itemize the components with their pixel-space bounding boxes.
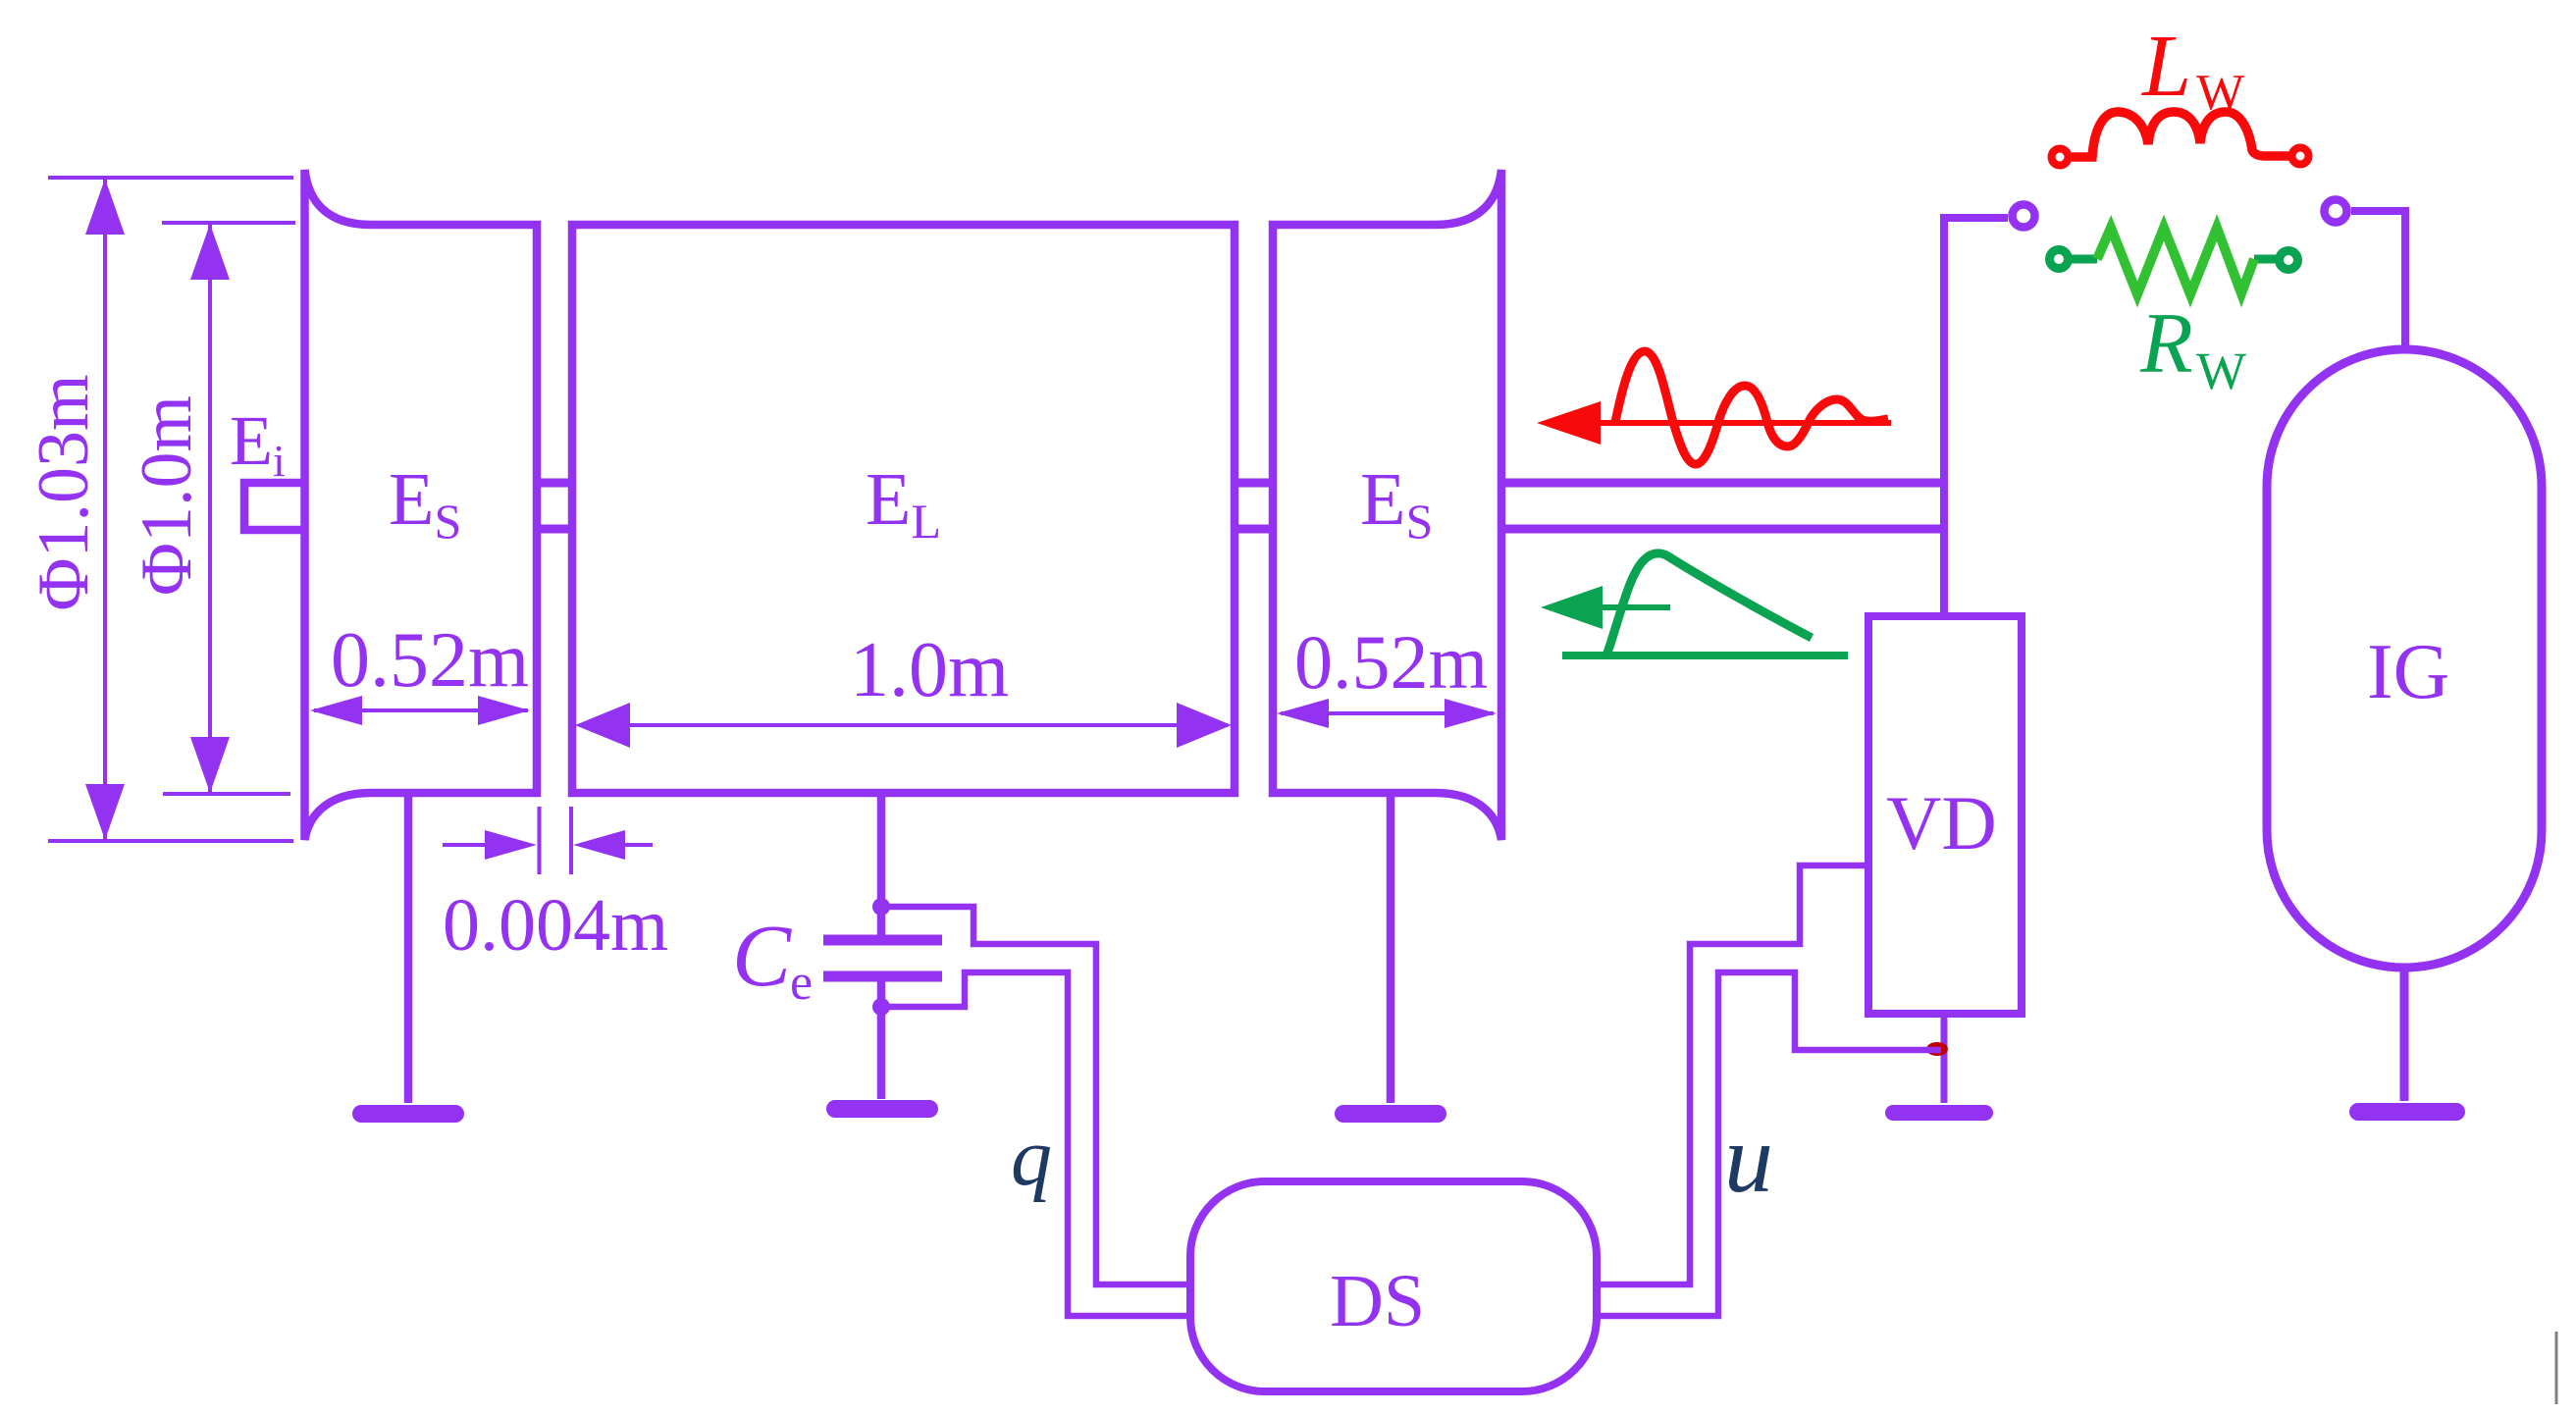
svg-text:VD: VD xyxy=(1886,780,1997,865)
svg-text:e: e xyxy=(790,955,813,1011)
extension line inner bottom xyxy=(163,792,290,796)
junction dot Ce top xyxy=(872,898,890,916)
connector stub ES-EL lower xyxy=(537,525,572,534)
capacitor Ce top plate xyxy=(823,935,942,946)
svg-text:1.0m: 1.0m xyxy=(850,627,1009,713)
wire VD bottom xyxy=(1941,1014,1948,1103)
connector stub EL-ESright lower xyxy=(1235,525,1273,534)
resistor RW leads xyxy=(2072,255,2097,264)
arrowhead Phi1.0m top xyxy=(190,224,230,280)
dimension 0.52m right arrows xyxy=(1277,699,1497,728)
gap arrow left xyxy=(443,830,537,860)
wire IG to ground xyxy=(2400,968,2409,1101)
wire vertical to VD and terminal xyxy=(1940,214,1948,617)
arrowhead Phi1.03m bottom xyxy=(85,784,125,840)
svg-text:R: R xyxy=(2139,296,2193,392)
electrode ES left outline xyxy=(305,170,538,840)
wire EL bottom to Ce xyxy=(877,795,886,907)
bus line lower xyxy=(1501,525,1948,534)
generator IG stadium xyxy=(2267,349,2542,968)
gap arrow right xyxy=(573,830,653,860)
svg-text:0.52m: 0.52m xyxy=(1294,619,1488,705)
terminal circle right xyxy=(2325,200,2347,223)
svg-text:W: W xyxy=(2196,341,2246,400)
red oscillation arrow xyxy=(1537,401,1891,445)
wire Ce to ground xyxy=(877,1007,886,1099)
svg-text:Φ1.0m: Φ1.0m xyxy=(127,395,207,596)
svg-text:W: W xyxy=(2196,65,2244,121)
junction dot red xyxy=(1926,1042,1948,1056)
svg-text:0.52m: 0.52m xyxy=(331,617,529,704)
junction dot Ce bottom xyxy=(872,998,890,1016)
ground VD xyxy=(1885,1105,1993,1121)
wire q B (Ce bottom to DS) xyxy=(881,972,1187,1316)
svg-text:DS: DS xyxy=(1330,1260,1425,1342)
electrode ES right outline xyxy=(1273,170,1501,840)
inductor LW coil xyxy=(2071,112,2289,157)
green impulse arrow xyxy=(1541,586,1670,629)
ground ES left xyxy=(352,1105,464,1123)
inductor LW circles xyxy=(2052,149,2069,166)
svg-text:IG: IG xyxy=(2367,629,2449,715)
connector stub ES-EL upper xyxy=(537,479,572,488)
gray tick xyxy=(2555,1332,2558,1404)
connector stub EL-ESright upper xyxy=(1235,479,1273,488)
box VD xyxy=(1868,616,2022,1014)
dimension 0.52m left arrows xyxy=(310,696,530,725)
wire right terminal to IG xyxy=(2351,211,2405,353)
resistor RW zigzag xyxy=(2097,228,2254,294)
ground IG xyxy=(2349,1103,2465,1121)
dimension line Phi1.03m xyxy=(103,178,107,841)
wire u B (VD bottom to DS) xyxy=(1600,972,1941,1316)
dimension line Phi1.0m xyxy=(208,223,212,794)
capacitor Ce top stub xyxy=(877,907,886,935)
arrowhead Phi1.0m bottom xyxy=(190,737,230,793)
extension line inner top xyxy=(162,221,295,225)
wire ES left to ground xyxy=(404,795,413,1103)
capacitor Ce bottom stub xyxy=(877,981,886,1007)
extension line outer top xyxy=(48,176,293,180)
arrowhead Phi1.03m top xyxy=(85,179,125,235)
ground ES right xyxy=(1335,1105,1446,1123)
capacitor Ce bottom plate xyxy=(823,971,942,982)
resistor RW circles xyxy=(2050,250,2069,269)
wire u A (VD tap to DS) xyxy=(1600,865,1868,1284)
dimension 1.0m arrows xyxy=(575,703,1232,748)
svg-text:q: q xyxy=(1011,1112,1052,1203)
wire ES right to ground xyxy=(1387,795,1395,1103)
ground Ce xyxy=(826,1100,938,1118)
svg-text:u: u xyxy=(1724,1104,1773,1213)
svg-text:Φ1.03m: Φ1.03m xyxy=(24,374,104,610)
extension line outer bottom xyxy=(48,839,293,843)
gap extension lines xyxy=(540,807,572,874)
svg-text:0.004m: 0.004m xyxy=(443,884,668,967)
green impulse baseline xyxy=(1562,652,1848,659)
green impulse wave xyxy=(1606,553,1812,655)
bus line upper xyxy=(1501,479,1948,488)
svg-text:C: C xyxy=(732,908,792,1005)
svg-text:L: L xyxy=(2140,18,2191,115)
terminal circle left xyxy=(2013,205,2035,228)
electrode Ei stub xyxy=(244,483,302,530)
wire q A (Ce top to DS) xyxy=(881,907,1187,1284)
red damped wave xyxy=(1615,351,1888,464)
box DS xyxy=(1190,1181,1597,1391)
wire to left terminal xyxy=(1940,214,2008,222)
electrode EL xyxy=(572,225,1235,793)
